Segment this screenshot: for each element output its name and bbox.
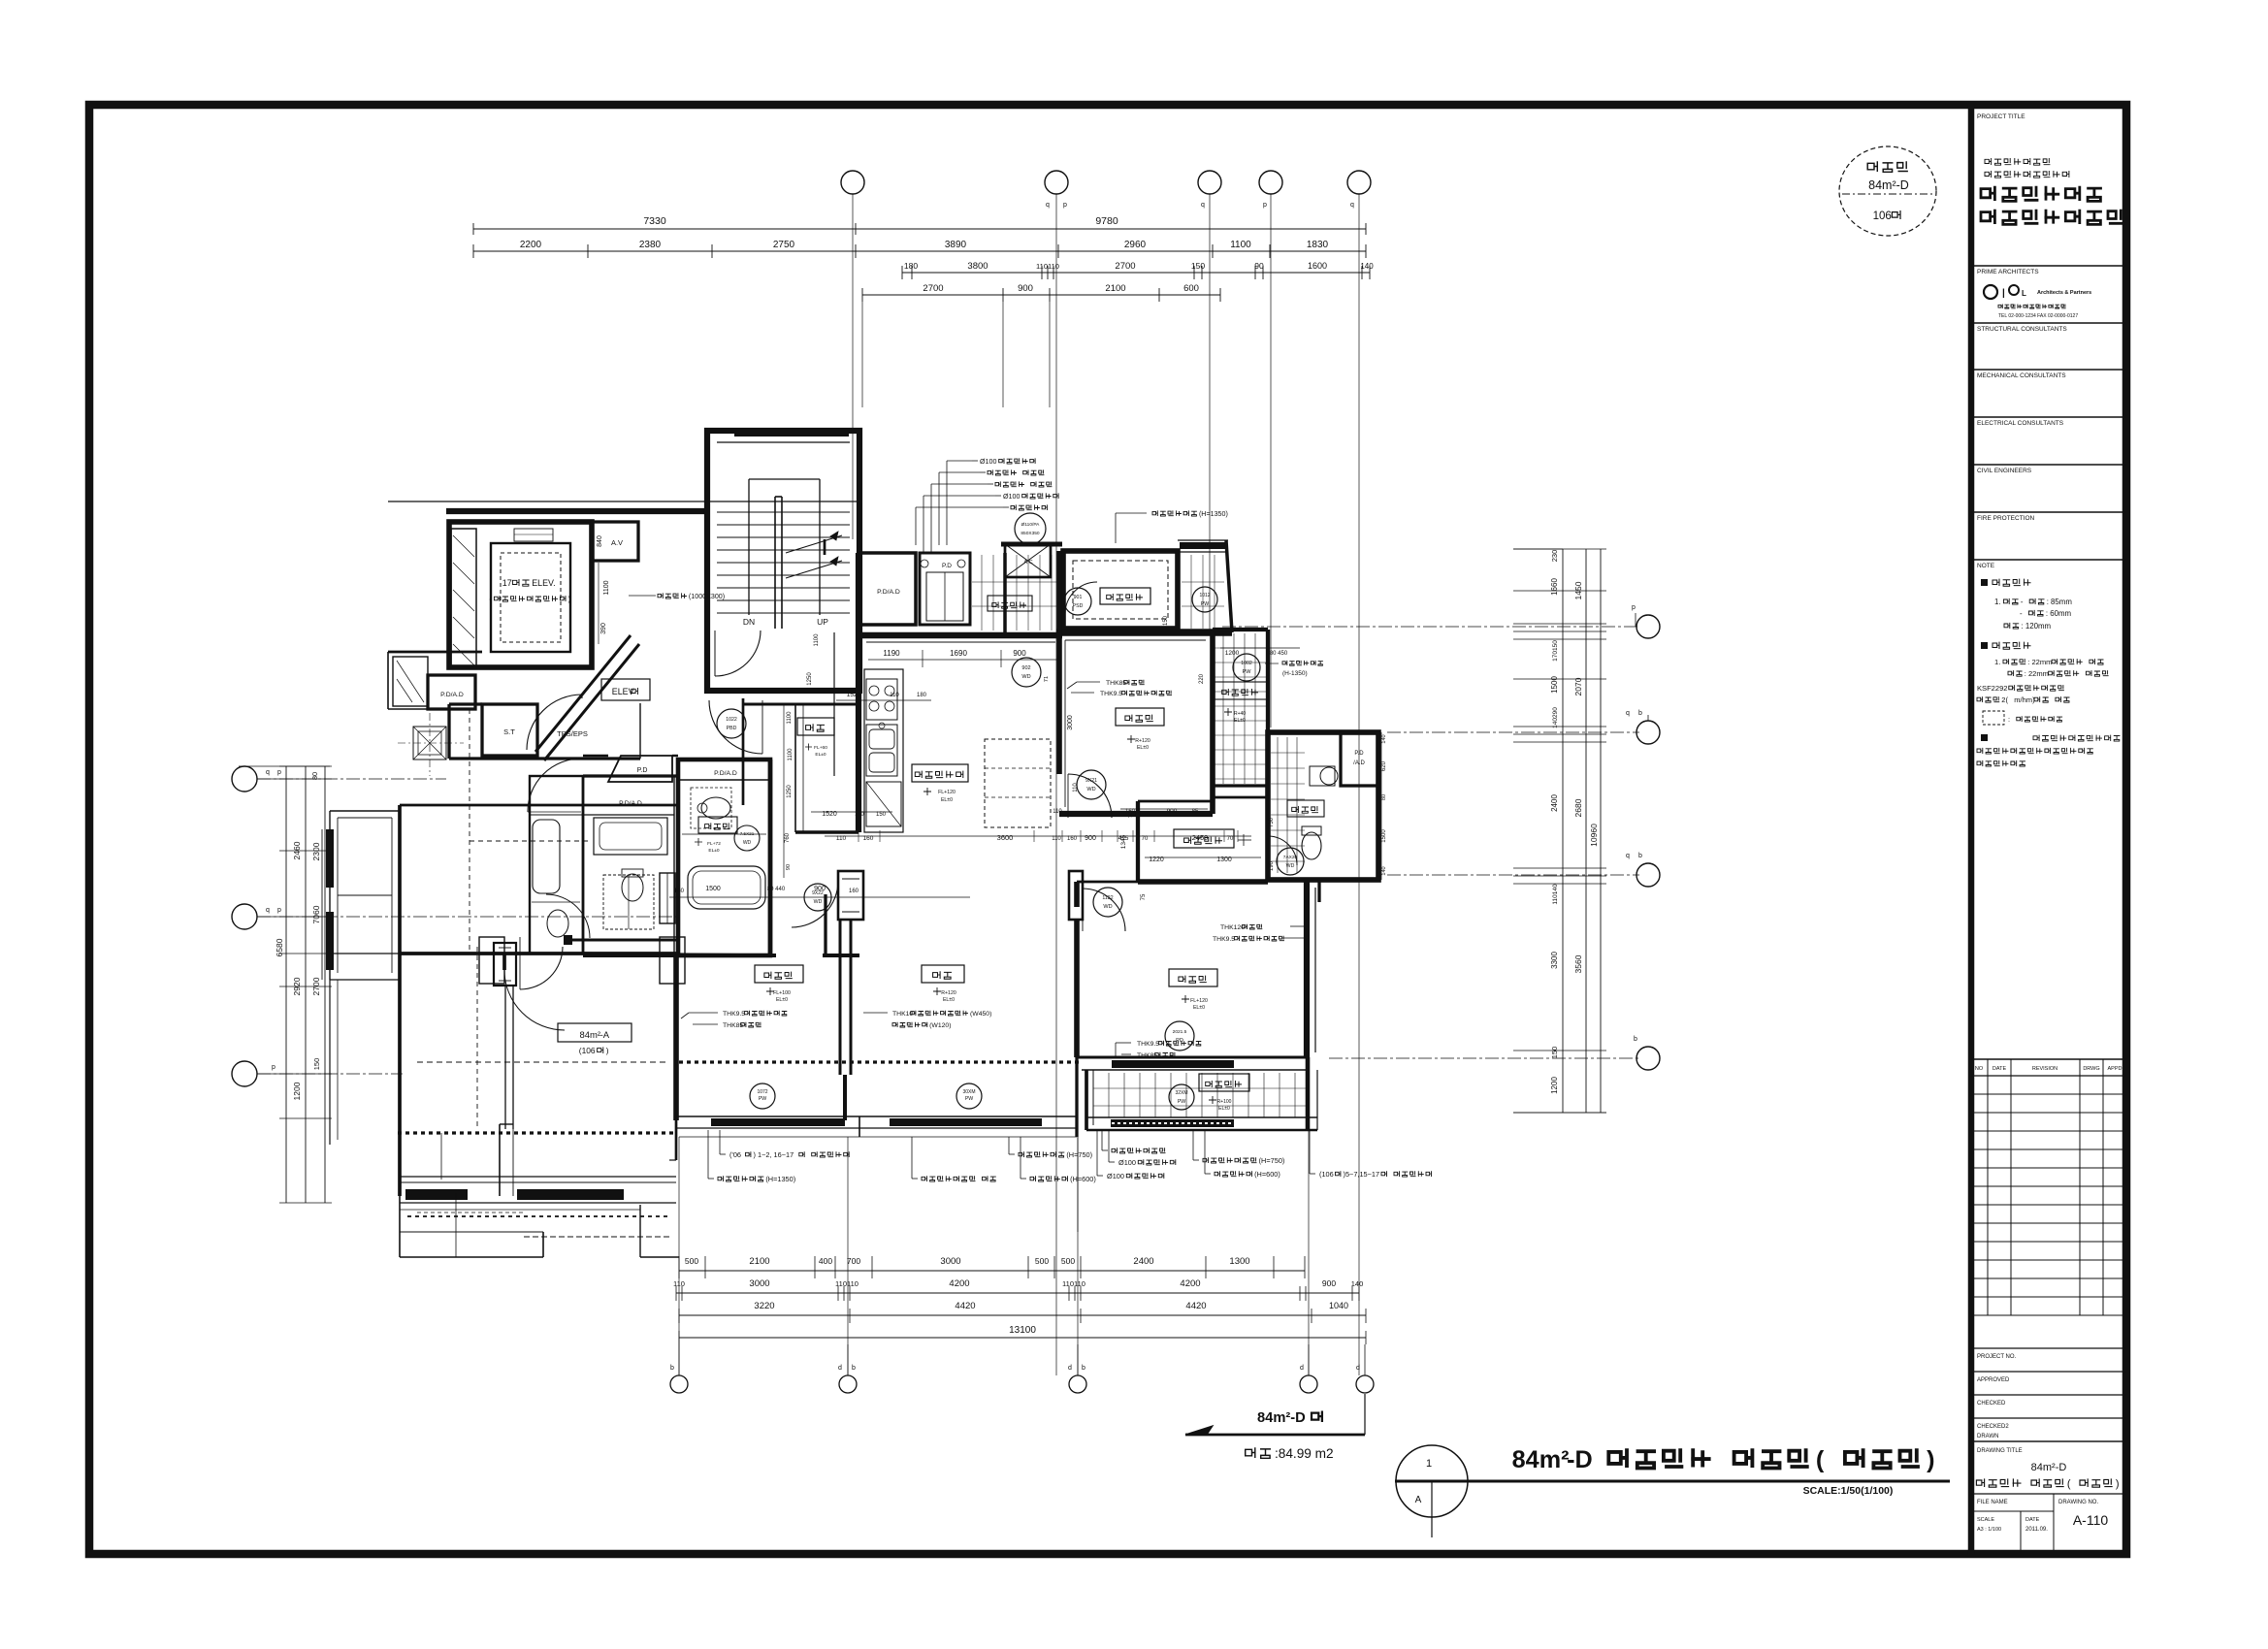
svg-text:2300: 2300 (311, 842, 321, 860)
ELEV hall label (601, 679, 650, 700)
svg-text:DRAWING TITLE: DRAWING TITLE (1977, 1448, 2023, 1454)
svg-text:FL+100: FL+100 (773, 990, 791, 996)
area text (1246, 1447, 1271, 1458)
elevator room (449, 522, 592, 667)
svg-text:2920: 2920 (292, 977, 302, 995)
svg-text:170150: 170150 (1552, 640, 1559, 662)
svg-text:2380: 2380 (639, 240, 662, 250)
top grid bubbles (841, 171, 864, 194)
svg-text:R+120: R+120 (941, 990, 956, 996)
svg-text:): ) (2116, 1478, 2120, 1490)
svg-text:1690: 1690 (950, 649, 967, 658)
svg-text:1100: 1100 (787, 711, 793, 725)
84A label (558, 1023, 632, 1042)
svg-text:DN: DN (743, 617, 755, 627)
svg-text:): ) (1927, 1446, 1934, 1473)
svg-text:Architects & Partners: Architects & Partners (2037, 290, 2091, 296)
filename / drawing no cells (2053, 1494, 2055, 1554)
svg-text:150: 150 (1191, 261, 1205, 271)
svg-text:p: p (272, 1064, 275, 1071)
bottom dim row D (679, 1337, 1366, 1339)
svg-text:110110: 110110 (1062, 1279, 1085, 1288)
note content (1981, 579, 1988, 586)
svg-text:EL±0: EL±0 (776, 997, 788, 1003)
balcony4 window tag (1233, 654, 1260, 681)
svg-text:84m²-D: 84m²-D (2031, 1462, 2067, 1473)
corridor top wall (388, 501, 859, 502)
svg-text:d: d (838, 1365, 842, 1372)
svg-text:84m²: 84m² (579, 1030, 600, 1041)
refuge room walls (1063, 551, 1178, 629)
svg-text:3890: 3890 (945, 240, 967, 250)
svg-text:FL+60: FL+60 (814, 745, 827, 751)
svg-text:ELECTRICAL CONSULTANTS: ELECTRICAL CONSULTANTS (1977, 420, 2064, 427)
PDAD room left (428, 675, 475, 709)
hall pier (842, 872, 863, 891)
title block section dividers (1971, 265, 2126, 267)
svg-text:2021.5: 2021.5 (1173, 1029, 1187, 1035)
svg-text:A.V: A.V (611, 538, 623, 547)
svg-text:WD: WD (743, 840, 752, 846)
refuge door arc (1065, 582, 1097, 614)
svg-text:1200: 1200 (292, 1082, 302, 1100)
stair break arrows (786, 535, 842, 553)
svg-text:WD: WD (1021, 674, 1030, 680)
svg-text:17: 17 (502, 578, 512, 588)
svg-text:1500: 1500 (1381, 829, 1387, 843)
svg-text:4420: 4420 (1185, 1301, 1206, 1311)
svg-text:FL+120: FL+120 (938, 790, 956, 795)
bath2 door arc (1268, 836, 1297, 865)
bottom leaders left set (719, 1130, 721, 1154)
svg-text:EL±0: EL±0 (943, 997, 955, 1003)
right top tiles (1190, 555, 1192, 629)
svg-text:q: q (1350, 202, 1354, 209)
living door tag (1093, 888, 1122, 917)
bedroom1 PD tag (1165, 1021, 1194, 1051)
corridor walls to unit (583, 755, 608, 757)
svg-text:m/hm): m/hm) (2014, 695, 2035, 704)
svg-text:WD: WD (814, 899, 823, 905)
svg-text:(W450): (W450) (970, 1011, 991, 1018)
svg-text:1200: 1200 (1225, 650, 1240, 657)
84A lower dashed band (407, 1215, 667, 1217)
svg-text:6580: 6580 (275, 938, 284, 956)
svg-text:1100: 1100 (603, 580, 610, 595)
svg-text:SCALE: SCALE (1977, 1517, 1994, 1523)
svg-text:P.D/A.D: P.D/A.D (877, 589, 900, 596)
svg-text:WD: WD (1103, 904, 1112, 910)
svg-text:2750: 2750 (773, 240, 795, 250)
svg-text:1345: 1345 (1120, 834, 1127, 849)
dressroom label (1174, 829, 1234, 848)
svg-text:500: 500 (1035, 1256, 1049, 1266)
84A bottom left step (500, 1123, 513, 1125)
svg-text:84m²-D: 84m²-D (1257, 1410, 1306, 1426)
hall to unit wall (592, 757, 640, 760)
svg-text:80 450: 80 450 (1270, 651, 1288, 657)
svg-text:APPD: APPD (2108, 1066, 2122, 1072)
fan coil dashed box (413, 727, 446, 760)
84A door arc (504, 970, 565, 1030)
left bath walls (530, 776, 583, 954)
svg-text:80: 80 (1381, 794, 1387, 800)
svg-text:3600: 3600 (997, 833, 1014, 842)
svg-text:840: 840 (597, 535, 603, 547)
svg-text:2011.09.: 2011.09. (2025, 1527, 2048, 1533)
svg-text:EL±0: EL±0 (1193, 1005, 1205, 1011)
bottom dim row B (676, 1292, 1359, 1294)
hall dashed path (469, 709, 470, 954)
bottom grid bubbles (670, 1375, 688, 1393)
svg-text:TEL 02-000-1234 FAX 02-0000-01: TEL 02-000-1234 FAX 02-0000-0127 (1998, 313, 2078, 319)
bedroom3 inner lines (1064, 640, 1066, 807)
right grid centerlines into plan (1222, 626, 1639, 628)
balcony4 top tiles (981, 555, 983, 630)
svg-text:(: ( (2067, 1478, 2071, 1490)
svg-text:2700: 2700 (311, 977, 321, 995)
bottom dim row C (679, 1314, 1366, 1316)
svg-text:): ) (606, 1046, 609, 1055)
living room walls (843, 1075, 847, 1120)
svg-text:R+40: R+40 (1234, 711, 1246, 717)
bottom window tags (750, 1083, 775, 1109)
top tag circle (1015, 513, 1046, 544)
bath cluster extra lines (583, 775, 678, 778)
svg-text:84m²-D: 84m²-D (1868, 178, 1909, 192)
svg-text:-: - (2020, 609, 2023, 618)
svg-text:R+120: R+120 (1135, 738, 1150, 744)
svg-text:THK9.5: THK9.5 (723, 1011, 745, 1018)
svg-text:A-110: A-110 (2073, 1512, 2109, 1528)
balcony2 tiles (1108, 1073, 1110, 1117)
balcony2 strip (1085, 1070, 1088, 1130)
balcony2 label (1199, 1074, 1249, 1091)
svg-text:160: 160 (1067, 836, 1078, 842)
balcony4 right label (1215, 682, 1267, 699)
svg-text:EL±0: EL±0 (708, 848, 719, 854)
svg-text:b: b (852, 1365, 856, 1372)
84A pier and door (494, 943, 516, 986)
svg-text:q: q (266, 769, 270, 776)
svg-text:160: 160 (849, 889, 859, 894)
bath2 door tag (1277, 848, 1304, 875)
bed2 door arc (792, 881, 838, 927)
svg-text:(1000X300): (1000X300) (689, 593, 725, 600)
svg-text:L: L (2022, 289, 2026, 298)
svg-text:FIRE PROTECTION: FIRE PROTECTION (1977, 515, 2035, 522)
svg-text:P.D/A.D: P.D/A.D (714, 770, 737, 777)
svg-text:R+100: R+100 (1217, 1099, 1232, 1105)
svg-text:THK85: THK85 (723, 1022, 743, 1029)
entry door tag (717, 709, 746, 738)
84A upper window jambs (660, 873, 675, 923)
svg-text:1002: 1002 (1241, 661, 1252, 666)
svg-text:85: 85 (1192, 809, 1199, 815)
svg-text:(106: (106 (1319, 1170, 1334, 1179)
bedroom3 door arc (1068, 774, 1112, 818)
svg-text:1.: 1. (1994, 658, 2000, 666)
entry step lines (794, 704, 796, 832)
bath1 door tag (734, 825, 760, 851)
svg-text:150: 150 (1550, 1047, 1559, 1059)
svg-text:q: q (1046, 202, 1050, 209)
svg-text:180: 180 (904, 261, 918, 271)
84A window boxes upper (479, 937, 504, 984)
balcony2 under leaders (1077, 1130, 1079, 1232)
svg-text:CHECKED: CHECKED (1977, 1401, 2006, 1406)
svg-text:220: 220 (1199, 673, 1205, 684)
svg-text:110: 110 (1053, 809, 1062, 815)
svg-text:1100: 1100 (1230, 240, 1251, 250)
svg-text:850X350: 850X350 (1021, 531, 1040, 536)
stair room (707, 431, 859, 691)
svg-text:STRUCTURAL CONSULTANTS: STRUCTURAL CONSULTANTS (1977, 326, 2067, 333)
svg-text:1100: 1100 (814, 633, 820, 647)
bedroom2 left wall (673, 955, 679, 1120)
balcony2 window tag (1169, 1084, 1194, 1110)
84A bottom step walls (639, 1205, 641, 1257)
kitchen label (912, 764, 968, 782)
revision table (1971, 1058, 2126, 1060)
svg-text:(H=600): (H=600) (1254, 1170, 1280, 1179)
svg-text:TPS/EPS: TPS/EPS (557, 729, 588, 738)
bath1 label (698, 817, 737, 833)
84A left balcony wall (398, 805, 402, 1196)
svg-text:NOTE: NOTE (1977, 563, 1995, 569)
bedroom3 label (1116, 708, 1164, 726)
svg-text:32XM: 32XM (1175, 1090, 1187, 1096)
svg-text:DRAWN: DRAWN (1977, 1434, 1998, 1439)
top dim row 1 (473, 228, 856, 230)
svg-text:190: 190 (1269, 860, 1275, 871)
svg-text:1450: 1450 (1573, 581, 1583, 599)
grid verticals (852, 194, 854, 539)
stair treads (717, 511, 850, 513)
bath1 tub (688, 866, 765, 909)
84A lower-left room (399, 1196, 401, 1257)
PD parallelogram (608, 756, 672, 782)
svg-text:PROJECT NO.: PROJECT NO. (1977, 1354, 2017, 1360)
svg-text:FL+120: FL+120 (1190, 998, 1208, 1004)
bath2 label (1287, 800, 1324, 817)
left grid bubbles (232, 766, 257, 792)
svg-text:WD: WD (1286, 863, 1295, 869)
kitchen door tag (1012, 658, 1041, 687)
svg-text:2(: 2( (2001, 695, 2008, 704)
stamp oval extended-type (1839, 146, 1936, 236)
84A top wall (400, 804, 676, 807)
svg-text::: : (2008, 715, 2010, 724)
svg-text:1500: 1500 (705, 886, 721, 892)
svg-text:7.5X21: 7.5X21 (740, 831, 755, 836)
svg-text:110: 110 (890, 693, 899, 698)
svg-text:71: 71 (1044, 676, 1050, 682)
svg-text:WD: WD (1086, 787, 1095, 792)
svg-text:THK9.5: THK9.5 (1213, 936, 1235, 943)
middle bath walls (582, 776, 585, 954)
svg-text:EL±0: EL±0 (941, 797, 953, 803)
living bottom window (859, 1115, 1077, 1117)
svg-text:(H=1350): (H=1350) (1199, 510, 1228, 518)
svg-text:EL±0: EL±0 (1234, 718, 1246, 724)
svg-text:THK9.5: THK9.5 (1137, 1041, 1159, 1048)
left grid centerlines into plan (257, 778, 446, 780)
svg-text:Ø100: Ø100 (1118, 1158, 1136, 1167)
svg-text:P.D: P.D (942, 563, 952, 569)
svg-text:DATE: DATE (2025, 1517, 2040, 1523)
svg-text:1100: 1100 (788, 748, 794, 761)
svg-text:1: 1 (1426, 1458, 1432, 1470)
svg-text:150: 150 (312, 1058, 321, 1071)
bath2 PDAD (1341, 732, 1378, 786)
bath1 dashed fixtures (691, 788, 731, 828)
svg-text:) 1~2, 16~17: ) 1~2, 16~17 (754, 1150, 794, 1159)
svg-text:2700: 2700 (1115, 261, 1135, 272)
svg-text:THK120: THK120 (1220, 924, 1245, 931)
84A dashed interior (417, 1061, 669, 1063)
svg-text:1072: 1072 (757, 1089, 767, 1095)
svg-text:PROJECT TITLE: PROJECT TITLE (1977, 113, 2025, 120)
svg-text:1300: 1300 (1229, 1256, 1249, 1267)
svg-text:1600: 1600 (1308, 261, 1327, 271)
svg-text:PBD: PBD (727, 726, 737, 731)
svg-text:Ø100: Ø100 (1107, 1172, 1124, 1180)
svg-text:)5~7,15~17: )5~7,15~17 (1344, 1170, 1380, 1179)
corridor lower wall (387, 652, 389, 709)
left dim chain lines (285, 766, 287, 1203)
svg-text:901: 901 (1074, 595, 1083, 600)
svg-text:2070: 2070 (1573, 677, 1583, 695)
middle bath dashed box (603, 875, 654, 929)
svg-text:140: 140 (1381, 866, 1387, 875)
AV box (592, 522, 638, 561)
svg-text:-: - (2021, 598, 2024, 606)
svg-text:70: 70 (1142, 836, 1149, 842)
top dim row 4 (862, 294, 1220, 296)
svg-text:1012: 1012 (1199, 593, 1210, 598)
svg-text:PRIME ARCHITECTS: PRIME ARCHITECTS (1977, 269, 2039, 275)
svg-text:q: q (1626, 853, 1630, 859)
svg-text:MECHANICAL CONSULTANTS: MECHANICAL CONSULTANTS (1977, 372, 2066, 379)
svg-text:: 60mm: : 60mm (2046, 609, 2072, 618)
svg-text:2700: 2700 (923, 283, 943, 294)
left bath door arc (546, 894, 590, 938)
svg-text:2680: 2680 (1573, 798, 1583, 817)
svg-text:PW: PW (965, 1096, 973, 1102)
svg-text:140: 140 (1360, 262, 1374, 271)
bedroom1 bottom wall with window (1077, 1056, 1310, 1059)
svg-text:(H=750): (H=750) (1066, 1150, 1092, 1159)
svg-text:q: q (1626, 710, 1630, 717)
bed2 door tag (804, 884, 831, 911)
svg-text:UP: UP (817, 617, 828, 627)
svg-text:('06: ('06 (729, 1150, 741, 1159)
bedroom2 right wall (839, 871, 842, 1075)
svg-text:1250: 1250 (807, 672, 813, 686)
svg-text:q: q (1201, 202, 1205, 209)
svg-text:EL±0: EL±0 (1218, 1106, 1230, 1112)
right grid bubbles (1636, 615, 1660, 638)
svg-text:600: 600 (1183, 283, 1199, 294)
svg-text:110: 110 (1073, 783, 1079, 792)
svg-text:150: 150 (876, 812, 887, 818)
svg-text:760: 760 (785, 832, 791, 843)
svg-text:d: d (1068, 1365, 1072, 1372)
svg-text:P.D/A.D: P.D/A.D (440, 692, 464, 698)
entry label (797, 718, 834, 735)
svg-text:PW: PW (1178, 1099, 1185, 1105)
svg-text:PD: PD (1176, 1038, 1183, 1044)
svg-text:/A.D: /A.D (1353, 760, 1365, 766)
bedroom2 top walls (583, 954, 776, 957)
svg-text:1200: 1200 (1550, 1077, 1559, 1094)
left shaft hatch (451, 529, 476, 667)
svg-text:APPROVED: APPROVED (1977, 1377, 2010, 1383)
svg-text:DRAWING NO.: DRAWING NO. (2058, 1500, 2098, 1505)
svg-text:PW: PW (1243, 669, 1252, 675)
stair rail (774, 497, 776, 629)
84A bottom dashed (398, 1131, 676, 1134)
entry door arcs (527, 695, 582, 750)
svg-text:EL±0: EL±0 (815, 752, 826, 758)
84A bottom more (399, 1062, 401, 1133)
svg-text:160: 160 (1125, 809, 1136, 815)
svg-text:3000: 3000 (940, 1256, 960, 1267)
living label (922, 965, 964, 983)
upper-left guide horizontals (239, 765, 330, 767)
bath1 toilet (701, 797, 730, 819)
svg-text:70: 70 (1227, 836, 1234, 842)
svg-text:Ø100: Ø100 (980, 458, 996, 466)
svg-text::84.99 m2: :84.99 m2 (1275, 1446, 1334, 1461)
svg-text:140: 140 (1351, 1279, 1364, 1288)
refuge-bed3 divider wall (1056, 629, 1232, 636)
svg-text:: 22mm: : 22mm (2027, 658, 2052, 666)
svg-text:110: 110 (1052, 836, 1061, 842)
page frame (89, 105, 2126, 1554)
svg-text:(W120): (W120) (929, 1022, 951, 1029)
balcony4 top wall (1001, 542, 1062, 547)
svg-text:106: 106 (1873, 210, 1892, 222)
svg-text:A3 : 1/100: A3 : 1/100 (1977, 1527, 2001, 1533)
balcony handrail leader (1282, 661, 1323, 665)
svg-text:: 85mm: : 85mm (2047, 598, 2073, 606)
svg-text:900: 900 (814, 886, 826, 892)
svg-text:4200: 4200 (1180, 1278, 1200, 1289)
balcony4 top label (988, 596, 1032, 611)
refuge door tag (1064, 588, 1091, 615)
svg-text:2460: 2460 (292, 841, 302, 859)
svg-text:902: 902 (1021, 665, 1030, 671)
svg-text:1660: 1660 (1550, 578, 1559, 596)
svg-text:b: b (1634, 1036, 1637, 1043)
svg-text:2400: 2400 (1133, 1256, 1153, 1267)
svg-text:SCALE:1/50(1/100): SCALE:1/50(1/100) (1803, 1485, 1894, 1497)
svg-text:10960: 10960 (1589, 824, 1599, 847)
svg-text:p: p (277, 907, 281, 914)
bedroom3 walls (1056, 551, 1062, 774)
84A balcony rooms (330, 953, 400, 954)
svg-text:3800: 3800 (967, 261, 988, 272)
dressroom walls (1136, 801, 1140, 882)
svg-text:DATE: DATE (1993, 1066, 2007, 1072)
svg-text:3300: 3300 (1550, 952, 1559, 969)
top dim row 2 (473, 250, 1366, 252)
svg-text:700: 700 (847, 1256, 860, 1266)
top dim row 3 (902, 272, 1370, 274)
leader chimney (629, 595, 656, 597)
